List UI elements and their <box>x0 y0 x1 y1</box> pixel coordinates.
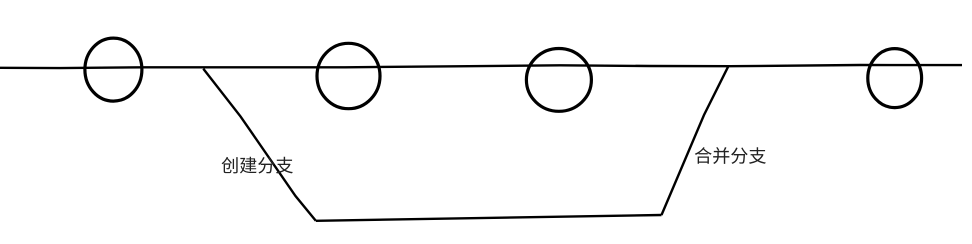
node: commit circle 3 <box>526 49 591 112</box>
node: commit circle 1 <box>85 38 142 101</box>
wire: main branch line <box>0 65 962 68</box>
text label 合并分支 (merge branch) <box>695 147 766 164</box>
wire: branch-out diagonal <box>203 69 315 221</box>
text label 创建分支 (create branch) <box>222 157 293 174</box>
node: commit circle 2 <box>317 43 380 108</box>
wire: merge diagonal <box>662 66 729 215</box>
wire: branch bottom line <box>316 215 662 221</box>
node: commit circle 4 <box>868 49 922 108</box>
